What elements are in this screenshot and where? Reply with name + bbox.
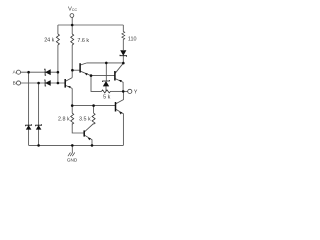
- svg-text:7.6 k: 7.6 k: [77, 38, 89, 44]
- svg-text:2.8 k: 2.8 k: [58, 117, 70, 123]
- svg-text:GND: GND: [67, 157, 78, 162]
- svg-text:3.5 k: 3.5 k: [79, 117, 91, 123]
- svg-text:Y: Y: [134, 89, 138, 95]
- svg-text:VCC: VCC: [68, 6, 77, 12]
- svg-text:5 k: 5 k: [103, 95, 110, 101]
- svg-text:B: B: [13, 81, 16, 86]
- svg-text:24 k: 24 k: [44, 38, 54, 44]
- svg-text:A: A: [13, 70, 17, 75]
- svg-text:110: 110: [128, 37, 137, 43]
